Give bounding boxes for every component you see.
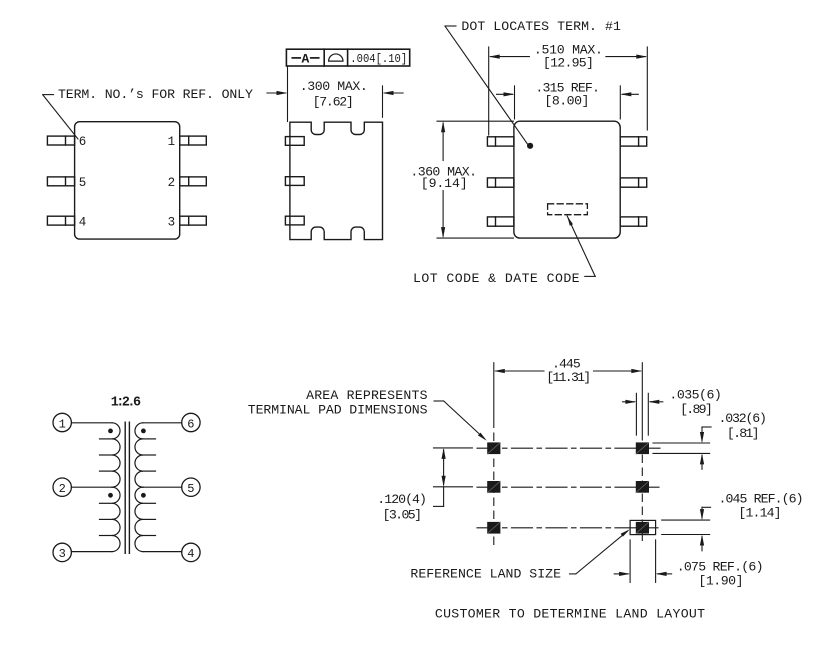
.120 row-pitch extension lines	[434, 448, 473, 487]
secondary winding 6-5 (4 turns)	[135, 423, 156, 487]
svg-text:AREA REPRESENTS: AREA REPRESENTS	[306, 388, 427, 403]
svg-text:[1.90]: [1.90]	[698, 574, 743, 589]
pin 6 (bottom view, top-left)	[47, 136, 74, 145]
dimension .035(6) [.89]	[669, 388, 721, 418]
svg-text:6: 6	[187, 417, 194, 431]
terminal 6 (circle)	[182, 413, 200, 431]
svg-text:[11.31]: [11.31]	[546, 370, 591, 385]
svg-text:[.81]: [.81]	[727, 426, 760, 441]
terminal pad right row3	[636, 522, 649, 534]
label AREA REPRESENTS TERMINAL PAD DIMENSIONS	[248, 388, 428, 417]
svg-text:.300 MAX.: .300 MAX.	[300, 79, 368, 94]
dimension .360 MAX. [9.14]	[410, 165, 477, 192]
.035 arrows	[623, 400, 663, 404]
row 2 centerline (dash-dot)	[477, 486, 659, 488]
dimension .510 MAX. [12.95]	[534, 42, 603, 70]
wire terminal 5 to secondary tap	[143, 486, 182, 488]
.075 reference-land-width extension lines	[630, 540, 656, 583]
.445 dimension line and arrows	[494, 369, 643, 373]
svg-text:[.89]: [.89]	[680, 402, 713, 417]
transformer core (two bars)	[125, 422, 129, 553]
svg-text:TERMINAL PAD DIMENSIONS: TERMINAL PAD DIMENSIONS	[248, 402, 428, 417]
leader from REFERENCE LAND SIZE to land outline (arrow)	[570, 529, 630, 574]
wire terminal 1 to primary winding	[71, 422, 112, 424]
terminal 4 (circle)	[182, 543, 200, 561]
polarity dot primary tap	[108, 493, 113, 498]
svg-text:1: 1	[59, 417, 66, 431]
extension line left (datum A to body)	[287, 66, 289, 122]
dimension .075 REF.(6) [1.90]	[677, 559, 764, 588]
label REFERENCE LAND SIZE	[410, 567, 561, 582]
terminal pad right row2	[636, 481, 649, 493]
.045 reference-land-height extension lines	[662, 520, 710, 534]
svg-text:2: 2	[168, 176, 176, 190]
svg-text:5: 5	[79, 176, 87, 190]
label TERM. NO.'s FOR REF. ONLY	[58, 87, 253, 102]
svg-text:TERM. NO.’s FOR REF. ONLY: TERM. NO.’s FOR REF. ONLY	[58, 87, 253, 102]
.360 extension lines	[437, 121, 514, 238]
terminal 1 index dot	[527, 143, 533, 149]
label DOT LOCATES TERM. #1	[461, 19, 621, 34]
pin 4 (bottom view, bottom-left)	[47, 216, 74, 225]
datum feature control frame -A- / profile symbol / .004[.10]	[286, 49, 409, 66]
.315 extension lines	[515, 86, 621, 119]
svg-text:1:2.6: 1:2.6	[111, 396, 141, 411]
polarity dot secondary top	[141, 429, 146, 434]
svg-text:.032(6): .032(6)	[719, 411, 767, 426]
arrow right of .300	[383, 91, 404, 95]
svg-text:4: 4	[79, 216, 87, 230]
.032 elbow and arrows	[700, 427, 711, 469]
transformer T1 turns ratio label 1:2.6	[111, 396, 141, 411]
profile-of-surface symbol	[329, 54, 343, 61]
pin 5 (bottom view, mid-left)	[47, 177, 74, 186]
.510 extension lines	[489, 47, 648, 135]
dimension .045 REF.(6) [1.14]	[719, 492, 804, 521]
pin 1 (bottom view, top-right)	[180, 136, 207, 145]
svg-text:5: 5	[187, 482, 194, 496]
secondary winding 5-4 (4 turns)	[135, 487, 156, 551]
package bottom view body	[75, 122, 180, 239]
.045 elbow and arrows	[700, 507, 711, 551]
leader line to lot code area	[567, 216, 595, 276]
top view pin top-left	[487, 137, 514, 146]
terminal 3 (circle)	[53, 543, 71, 561]
polarity dot secondary tap	[141, 493, 146, 498]
top view pin bottom-left	[487, 217, 514, 226]
.075 arrows	[614, 572, 671, 576]
leader line to dot	[445, 26, 529, 146]
svg-text:DOT LOCATES TERM. #1: DOT LOCATES TERM. #1	[461, 19, 621, 34]
wire terminal 4 to secondary winding	[143, 551, 182, 553]
side view pin bottom	[285, 216, 304, 225]
terminal pad left row1	[487, 442, 500, 454]
wire terminal 2 to primary tap	[71, 486, 112, 488]
wire terminal 3 to primary winding	[71, 551, 112, 553]
row 3 centerline (dash-dot)	[477, 527, 658, 529]
terminal 2 (circle)	[53, 478, 71, 496]
terminal 1 (circle)	[53, 413, 71, 431]
pin number labels 6 5 4 1 2 3	[79, 135, 175, 229]
right column centerline / .445 extension (solid then dashed)	[641, 363, 643, 546]
.035 pad-width extension lines	[636, 393, 648, 435]
.032 pad-height extension lines	[653, 443, 710, 453]
svg-text:CUSTOMER TO DETERMINE LAND LAY: CUSTOMER TO DETERMINE LAND LAYOUT	[435, 607, 705, 622]
svg-text:[8.00]: [8.00]	[544, 93, 589, 108]
svg-text:4: 4	[187, 547, 194, 561]
svg-text:2: 2	[59, 482, 66, 496]
leader line to pin 6	[43, 95, 78, 139]
wire terminal 6 to secondary winding	[143, 422, 182, 424]
top view pin mid-left	[487, 178, 514, 187]
.120 dimension line, arrows and elbow	[434, 448, 446, 507]
svg-text:3: 3	[59, 547, 66, 561]
svg-text:REFERENCE LAND SIZE: REFERENCE LAND SIZE	[410, 567, 561, 582]
dimension .445 [11.31]	[546, 356, 591, 385]
reference land outline around right row3 pad	[630, 520, 656, 534]
svg-text:[7.62]: [7.62]	[313, 94, 354, 109]
svg-text:1: 1	[168, 135, 176, 149]
extension line right	[382, 86, 384, 117]
terminal pad right row1	[636, 442, 649, 454]
svg-text:6: 6	[79, 135, 87, 149]
svg-text:[12.95]: [12.95]	[543, 56, 594, 71]
primary winding 2-3 (4 turns)	[100, 487, 121, 551]
datum label -A-	[292, 51, 318, 66]
pin 2 (bottom view, mid-right)	[180, 177, 207, 186]
svg-text:.075 REF.(6): .075 REF.(6)	[677, 559, 764, 574]
terminal pad left row3	[487, 522, 500, 534]
package top view body	[514, 121, 620, 238]
label LOT CODE & DATE CODE	[413, 271, 580, 286]
side view pin middle	[285, 177, 304, 186]
svg-text:[1.14]: [1.14]	[738, 505, 781, 520]
dimension .315 REF. [8.00]	[535, 80, 600, 108]
terminal pad left row2	[487, 481, 500, 493]
lot/date code marking area (dashed)	[548, 204, 588, 215]
svg-text:.004[.10]: .004[.10]	[350, 52, 407, 66]
svg-text:.045 REF.(6): .045 REF.(6)	[719, 492, 804, 507]
top view pin mid-right	[620, 178, 647, 187]
svg-text:3: 3	[168, 216, 176, 230]
top view pin top-right	[620, 137, 647, 146]
.360 dimension line and arrows	[441, 121, 445, 238]
tolerance text .004[.10]	[350, 52, 407, 66]
dimension .032(6) [.81]	[719, 411, 767, 441]
svg-text:A: A	[302, 51, 310, 66]
polarity dot primary top	[108, 429, 113, 434]
svg-text:.120(4): .120(4)	[377, 492, 427, 507]
note CUSTOMER TO DETERMINE LAND LAYOUT	[435, 607, 705, 622]
pin 3 (bottom view, bottom-right)	[180, 216, 207, 225]
primary winding 1-2 (4 turns)	[100, 423, 121, 487]
terminal 5 (circle)	[182, 478, 200, 496]
svg-text:[3.05]: [3.05]	[383, 507, 423, 522]
svg-text:[9.14]: [9.14]	[421, 176, 468, 191]
svg-text:.035(6): .035(6)	[669, 388, 721, 403]
row 1 centerline (dash-dot)	[477, 447, 660, 449]
dimension .120(4) [3.05]	[377, 492, 427, 522]
.315 outside arrows	[497, 92, 639, 96]
.510 dimension line and arrows	[489, 55, 648, 59]
package side view outline with index notches	[290, 122, 383, 239]
left column centerline (dashed)	[493, 363, 495, 546]
dimension .300 MAX. [7.62]	[300, 79, 368, 110]
top view pin bottom-right	[620, 217, 647, 226]
arrow left of .300	[267, 91, 288, 95]
side view pin top	[285, 137, 304, 146]
leader from AREA REPRESENTS to pad (arrow)	[434, 401, 487, 441]
svg-text:LOT CODE & DATE CODE: LOT CODE & DATE CODE	[413, 271, 580, 286]
